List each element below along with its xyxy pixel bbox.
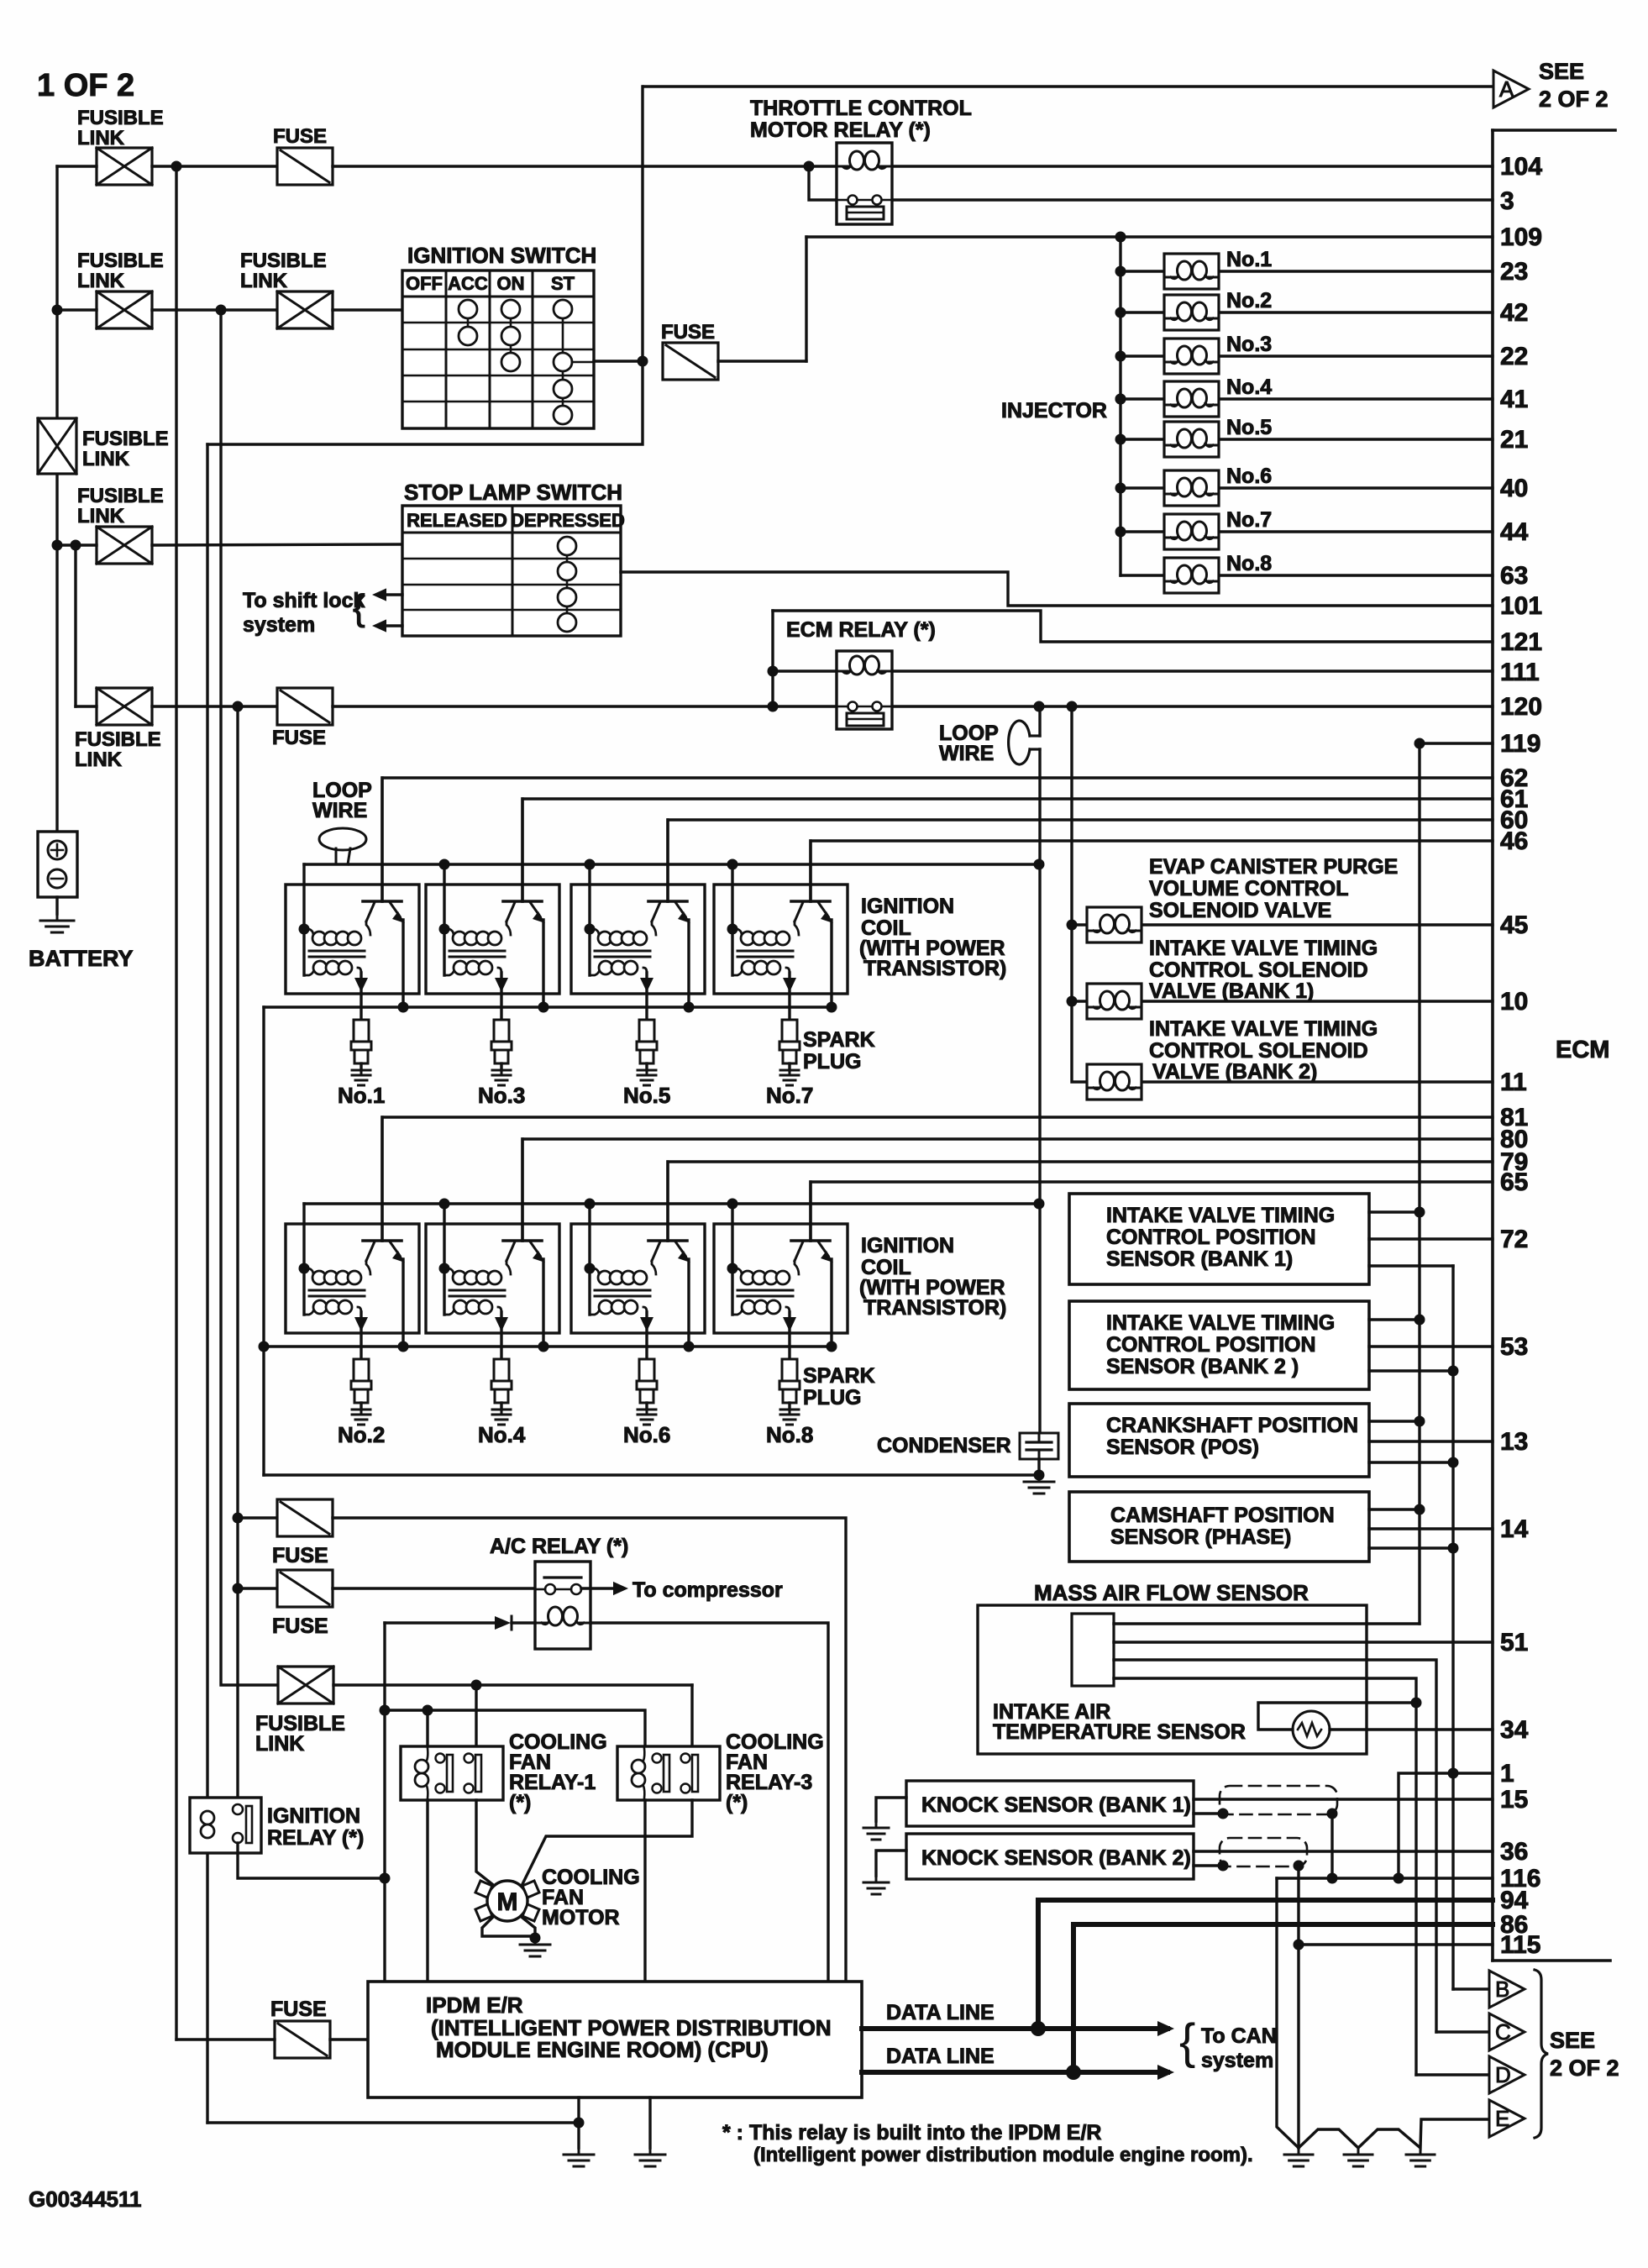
svg-text:IGNITION SWITCH: IGNITION SWITCH — [407, 243, 596, 268]
transistor emitter — [506, 902, 515, 921]
node dot row2 bus — [727, 1199, 738, 1210]
svg-text:FUSE: FUSE — [272, 1614, 328, 1638]
svg-text:FUSIBLE: FUSIBLE — [77, 249, 164, 272]
coil core — [595, 950, 650, 953]
wire bus210 to fuse6 — [176, 2038, 275, 2040]
svg-text:No.3: No.3 — [1226, 333, 1272, 356]
wire row2 coil bus — [304, 1202, 1039, 1205]
svg-text:SENSOR (BANK 1): SENSOR (BANK 1) — [1106, 1247, 1293, 1271]
wire coil primary to emitter — [795, 921, 799, 935]
svg-text:LINK: LINK — [75, 748, 123, 771]
node dot coil line x458 — [380, 1705, 391, 1716]
wire 119 line — [1420, 742, 1493, 744]
ground spark plug — [638, 1070, 656, 1085]
svg-text:ACC: ACC — [448, 273, 488, 294]
svg-text:MODULE ENGINE ROOM) (CPU): MODULE ENGINE ROOM) (CPU) — [436, 2037, 769, 2062]
transistor emitter — [652, 1242, 660, 1261]
wire condenser to return line — [1037, 1459, 1040, 1475]
svg-text:No.8: No.8 — [1226, 552, 1272, 575]
wire row1 link to fuse — [152, 165, 277, 167]
wire relay1 coil feed — [426, 1710, 428, 1746]
transistor collector with arrow — [675, 902, 685, 916]
node dot fuse junction x765 — [638, 356, 648, 367]
wire fuse4 to A/C relay contact — [333, 1587, 545, 1589]
svg-text:INTAKE VALVE TIMING: INTAKE VALVE TIMING — [1106, 1204, 1335, 1227]
node dot ecm relay coil tap — [768, 666, 779, 677]
spark plug — [494, 1020, 509, 1042]
svg-text:53: 53 — [1500, 1333, 1528, 1361]
ground spark plug — [780, 1410, 799, 1425]
coil secondary winding — [732, 1309, 743, 1315]
coil core — [449, 950, 505, 953]
arrow to compressor — [613, 1582, 628, 1595]
wire throttle relay coil-to-contact jumper — [809, 166, 837, 200]
wire battery bus vertical x68 — [55, 166, 58, 832]
svg-text:No.1: No.1 — [338, 1083, 385, 1108]
svg-text:22: 22 — [1500, 343, 1528, 370]
node dot 120 line x1276 — [1067, 701, 1078, 712]
svg-text:LINK: LINK — [255, 1732, 304, 1756]
svg-text:VALVE (BANK 2): VALVE (BANK 2) — [1152, 1060, 1317, 1084]
wire 115 line — [1299, 1943, 1493, 1945]
svg-text:RELEASED: RELEASED — [407, 510, 507, 531]
coil core — [737, 1289, 793, 1292]
svg-text:system: system — [1201, 2049, 1273, 2072]
transistor base feed — [809, 841, 811, 901]
node dot knock1 drain left — [1218, 1809, 1229, 1819]
wire IAT left to ground net — [1258, 1703, 1416, 1730]
svg-text:KNOCK SENSOR (BANK 1): KNOCK SENSOR (BANK 1) — [921, 1793, 1191, 1817]
svg-text:104: 104 — [1500, 153, 1542, 181]
node dot return x1730 crank — [1448, 1457, 1459, 1468]
condenser — [1020, 1433, 1058, 1459]
svg-text:CAMSHAFT POSITION: CAMSHAFT POSITION — [1110, 1504, 1335, 1527]
node dot fuse4 tap — [233, 1583, 244, 1594]
node dot ecm relay 120 tap — [768, 701, 779, 712]
svg-text:63: 63 — [1500, 562, 1528, 590]
ignition coil box at 850,1053 — [714, 885, 848, 994]
ECM box edge — [1493, 129, 1615, 132]
svg-text:INTAKE VALVE TIMING: INTAKE VALVE TIMING — [1149, 1017, 1378, 1041]
ignition relay — [190, 1798, 261, 1853]
svg-text:To compressor: To compressor — [632, 1578, 783, 1602]
svg-text:FUSIBLE: FUSIBLE — [75, 728, 161, 751]
wire coil left rail — [588, 1204, 590, 1315]
svg-text:FUSE: FUSE — [272, 1544, 328, 1567]
svg-text:No.6: No.6 — [623, 1422, 670, 1447]
wire coil left rail — [731, 1204, 733, 1315]
svg-text:system: system — [243, 613, 315, 637]
fusible link FL7 (cooling) — [278, 1667, 333, 1704]
wire spark plug tail — [788, 1063, 790, 1070]
wire solenoid2 stub — [1072, 1000, 1087, 1002]
wire bus x247 down to IPDM ground line — [206, 444, 208, 2123]
wire coil primary to emitter — [652, 1261, 656, 1274]
wire injector 5 to ECM — [1219, 438, 1493, 440]
svg-text:46: 46 — [1500, 827, 1528, 855]
node dot coil primary left — [299, 1263, 310, 1274]
svg-text:(*): (*) — [726, 1791, 748, 1814]
wire to shift lock arrow 1 — [377, 593, 402, 596]
svg-text:IGNITION: IGNITION — [861, 895, 954, 918]
transistor base feed — [381, 778, 383, 901]
coil primary winding — [304, 1268, 313, 1274]
wire coil secondary output — [645, 973, 648, 1020]
maf connector — [1072, 1614, 1114, 1686]
wire injector 6 feed — [1121, 486, 1164, 489]
fuse F1 (row1) — [277, 148, 333, 185]
wire coil primary to emitter — [366, 921, 370, 935]
wire sensor supply — [1369, 1210, 1420, 1213]
injector No.4 — [1164, 381, 1219, 417]
wire ECM drive line y951 to coil base x622 — [522, 799, 1493, 901]
ground spark plug — [352, 1070, 370, 1085]
svg-text:SEE: SEE — [1550, 2028, 1595, 2053]
svg-text:PLUG: PLUG — [803, 1386, 861, 1410]
svg-text:VOLUME CONTROL: VOLUME CONTROL — [1149, 877, 1349, 900]
wire knock1 signal to pin 15 — [1194, 1798, 1493, 1800]
svg-text:11: 11 — [1500, 1068, 1527, 1096]
fuse F5 (120 feed) — [277, 688, 333, 725]
wire maf w1 (supply) — [1114, 1622, 1420, 1625]
svg-text:ECM: ECM — [1556, 1037, 1609, 1063]
svg-text:40: 40 — [1500, 475, 1528, 502]
injector No.7 — [1164, 514, 1219, 549]
transistor base feed — [521, 1139, 523, 1241]
svg-text:CONDENSER: CONDENSER — [877, 1434, 1011, 1457]
svg-text:45: 45 — [1500, 911, 1528, 939]
wire maf w4 to sensor ground net — [1114, 1678, 1416, 2075]
transistor collector with arrow — [530, 1242, 540, 1256]
svg-text:KNOCK SENSOR (BANK 2): KNOCK SENSOR (BANK 2) — [921, 1846, 1191, 1870]
wire CAN riser 86 (thick) — [1071, 1924, 1076, 2072]
svg-text:THROTTLE CONTROL: THROTTLE CONTROL — [750, 97, 972, 120]
connector D — [1489, 2056, 1525, 2093]
svg-text:M: M — [497, 1888, 518, 1916]
spark output arrow — [354, 978, 368, 992]
node dot cooling x567 — [471, 1680, 482, 1691]
wire knock1 shield drain — [1194, 1812, 1223, 1814]
spark output arrow — [783, 1317, 796, 1331]
transistor base bar — [648, 1239, 687, 1242]
node dot coil primary left — [439, 924, 450, 935]
wire collector to return bus — [830, 920, 832, 1007]
svg-text:* : This relay is built into t: * : This relay is built into the IPDM E/… — [722, 2121, 1101, 2145]
svg-text:2 OF 2: 2 OF 2 — [1539, 87, 1609, 112]
cooling fan motor — [487, 1881, 527, 1921]
wire switch output to fuse junction — [594, 360, 643, 362]
svg-text:115: 115 — [1500, 1931, 1540, 1959]
injector No.3 — [1164, 339, 1219, 374]
ignition coil box at 680,1457 — [571, 1224, 705, 1333]
wire to shift lock arrow 2 — [377, 624, 402, 627]
wire riser x960 to 109 line — [805, 237, 807, 361]
node dot 115 tap — [1294, 1940, 1304, 1950]
ground IPDM 1 — [564, 2148, 594, 2166]
svg-text:(Intelligent power distributio: (Intelligent power distribution module e… — [753, 2144, 1253, 2166]
node dot sensor supply — [1414, 1504, 1425, 1515]
coil primary winding — [732, 1268, 742, 1274]
svg-text:SPARK: SPARK — [803, 1364, 875, 1388]
svg-text:B: B — [1495, 1977, 1509, 2002]
svg-text:No.2: No.2 — [338, 1422, 385, 1447]
wire sensor supply — [1369, 1508, 1420, 1510]
svg-text:CRANKSHAFT POSITION: CRANKSHAFT POSITION — [1106, 1414, 1358, 1437]
injector No.6 — [1164, 470, 1219, 506]
solenoid valve intake timing bank2 — [1087, 1064, 1142, 1100]
connector A — [1493, 71, 1529, 108]
node dot throttle relay feed — [804, 161, 815, 172]
sensor box intake valve timing position bank2 — [1069, 1301, 1369, 1389]
ground spark plug — [492, 1410, 511, 1425]
wire sensor signal to ECM — [1369, 1345, 1493, 1347]
wire sensor supply — [1369, 1420, 1420, 1422]
ground cooling fan motor — [520, 1938, 550, 1956]
arrow data line 1 — [1157, 2021, 1174, 2036]
node dot collector on return bus — [684, 1341, 695, 1352]
node dot injector bus row 4 — [1115, 394, 1126, 405]
wire B line — [1453, 1987, 1489, 1990]
wire collector to return bus — [542, 1259, 544, 1347]
wire spark plug tail — [788, 1403, 790, 1410]
svg-text:65: 65 — [1500, 1168, 1528, 1196]
node dot 119 tap x1690 — [1414, 738, 1425, 749]
node dot injector bus row 5 — [1115, 434, 1126, 445]
node dot data2 — [1066, 2065, 1081, 2080]
wire sensor return vertical x1730 — [1451, 1266, 1454, 1989]
wire bus x263 down to cooling fan feed — [221, 310, 278, 1685]
svg-text:FUSIBLE: FUSIBLE — [77, 107, 164, 129]
wire top A line — [643, 85, 1493, 87]
svg-text:INTAKE VALVE TIMING: INTAKE VALVE TIMING — [1149, 937, 1378, 960]
wire injector 1 feed — [1121, 270, 1164, 272]
wire pin86 line (thick) — [1073, 1922, 1493, 1927]
sensor box crankshaft position — [1069, 1404, 1369, 1477]
wire 109 line to ECM pin 109 — [806, 235, 1493, 238]
wire sensor return — [1369, 1546, 1453, 1549]
node dot row2 tap — [52, 305, 63, 316]
fusible link FL5 (row4) — [97, 527, 152, 564]
knock sensor bank2 box — [906, 1834, 1194, 1879]
stop lamp contacts — [558, 537, 576, 555]
ground spark plug — [638, 1410, 656, 1425]
node dot motor ground junction — [530, 1933, 541, 1944]
stop lamp switch table — [402, 506, 621, 636]
svg-text:EVAP CANISTER PURGE: EVAP CANISTER PURGE — [1149, 855, 1398, 879]
transistor collector with arrow — [390, 1242, 400, 1256]
node dot collector on return bus — [827, 1002, 837, 1013]
coil secondary winding — [590, 969, 600, 975]
bracket SEE 2 OF 2 bottom — [1535, 1970, 1548, 2138]
wire spark plug tail — [645, 1063, 648, 1070]
wire row2 return bus — [264, 1345, 831, 1347]
svg-text:72: 72 — [1500, 1226, 1528, 1253]
wire solenoid1 to pin 45 — [1142, 923, 1493, 926]
wire ECM drive line y976 to coil base x795 — [668, 820, 1493, 901]
wire ECM drive line y1330 to coil base x455 — [382, 1117, 1493, 1241]
fusible link FL2 (row2) — [97, 291, 152, 328]
ground IPDM 2 — [635, 2148, 665, 2166]
wire injector 7 to ECM — [1219, 530, 1493, 533]
node dot coil line x509 — [422, 1705, 433, 1716]
svg-text:15: 15 — [1500, 1786, 1528, 1814]
svg-text:ON: ON — [497, 273, 525, 294]
svg-text:(*): (*) — [509, 1791, 531, 1814]
node dot ignition relay output x457 — [380, 1873, 391, 1884]
svg-text:STOP LAMP SWITCH: STOP LAMP SWITCH — [404, 480, 622, 505]
svg-text:To CAN: To CAN — [1201, 2024, 1277, 2048]
coil secondary winding — [590, 1309, 600, 1315]
mass air flow sensor box — [978, 1605, 1367, 1754]
wire injector 5 feed — [1121, 438, 1164, 440]
transistor collector with arrow — [818, 902, 828, 916]
A/C relay — [535, 1562, 590, 1649]
spark plug — [782, 1359, 797, 1381]
svg-text:DATA LINE: DATA LINE — [886, 2045, 995, 2068]
node dot sensor supply — [1414, 1207, 1425, 1218]
sensor box camshaft position — [1069, 1492, 1369, 1562]
wire coil secondary output — [500, 973, 502, 1020]
svg-text:101: 101 — [1500, 592, 1542, 620]
node dot 120 line x1237 — [1034, 701, 1045, 712]
node dot return x1730 b2 — [1448, 1366, 1459, 1377]
node dot coil primary left — [585, 1263, 596, 1274]
wire spark plug tail — [500, 1403, 502, 1410]
spark output arrow — [354, 1317, 368, 1331]
svg-text:No.1: No.1 — [1226, 248, 1272, 271]
fusible link FL4 (vertical) — [38, 418, 76, 474]
wire coil secondary output — [645, 1312, 648, 1359]
ignition coil box at 850,1457 — [714, 1224, 848, 1333]
node dot collector on return bus — [684, 1002, 695, 1013]
node dot data1 — [1031, 2021, 1046, 2036]
transistor base feed — [809, 1182, 811, 1241]
wire relay1 output to motor — [476, 1800, 492, 1884]
wire motor left return — [482, 1918, 535, 1936]
node dot x90 row4 — [71, 540, 81, 551]
wire row4 link5 to stop lamp switch — [152, 544, 402, 545]
svg-text:44: 44 — [1500, 518, 1529, 546]
node dot coil primary left — [585, 924, 596, 935]
wire pin1 line — [1399, 1773, 1493, 1878]
wire ecm relay riser x920 — [771, 611, 774, 706]
node dot collector on return bus — [538, 1341, 549, 1352]
svg-text:LINK: LINK — [77, 505, 125, 528]
wire spark plug tail — [500, 1063, 502, 1070]
shield knock1 (dashed) — [1220, 1786, 1337, 1814]
spark plug — [354, 1359, 369, 1381]
svg-text:111: 111 — [1500, 659, 1540, 686]
wire row5 link6 to fuse5 — [152, 705, 277, 707]
svg-text:FUSIBLE: FUSIBLE — [82, 428, 169, 450]
node dot IPDM ground junction — [574, 2118, 585, 2129]
transistor collector with arrow — [675, 1242, 685, 1256]
wire collector to return bus — [687, 920, 690, 1007]
transistor collector with arrow — [818, 1242, 828, 1256]
transistor collector with arrow — [530, 902, 540, 916]
node dot injector bus row 1 — [1115, 266, 1126, 277]
svg-text:DATA LINE: DATA LINE — [886, 2001, 995, 2024]
coil core — [309, 950, 365, 953]
loop wire symbol row1 — [319, 828, 366, 850]
cooling fan relay-3 — [617, 1746, 720, 1800]
wire 121 line upper — [773, 611, 1493, 642]
wire coil secondary output — [360, 973, 362, 1020]
node dot row1 bus — [585, 859, 596, 870]
wire vertical x765 from A line to y529 — [207, 87, 643, 444]
svg-text:FUSIBLE: FUSIBLE — [240, 249, 327, 272]
wire stop lamp output to pin 101 — [621, 572, 1493, 606]
wire solenoid2 to pin 10 — [1142, 1000, 1493, 1002]
transistor emitter — [366, 902, 375, 921]
svg-text:IPDM E/R: IPDM E/R — [426, 1992, 523, 2018]
wire cooling coil line y2036 — [385, 1710, 645, 1746]
svg-text:2 OF 2: 2 OF 2 — [1550, 2055, 1619, 2081]
coil core — [449, 1289, 505, 1292]
intake air temperature sensor resistor — [1293, 1711, 1330, 1748]
throttle control motor relay — [837, 143, 892, 224]
svg-text:INTAKE VALVE TIMING: INTAKE VALVE TIMING — [1106, 1311, 1335, 1335]
knock sensor bank1 box — [906, 1781, 1194, 1826]
wire collector to return bus — [830, 1259, 832, 1347]
fuse F6 (IPDM) — [275, 2021, 330, 2058]
wire solenoid feed vertical x1276 — [1072, 706, 1087, 1082]
wire injector 8 to ECM — [1219, 574, 1493, 576]
spark output arrow — [783, 978, 796, 992]
svg-text:1 OF 2: 1 OF 2 — [37, 68, 134, 103]
transistor base bar — [363, 1239, 402, 1242]
wire knock1 ground hook — [876, 1798, 906, 1821]
svg-text:FUSE: FUSE — [273, 125, 327, 148]
wire coil primary to emitter — [506, 921, 511, 935]
wire A/C coil return riser x458 — [383, 1623, 386, 1982]
IPDM E/R box — [368, 1982, 862, 2097]
svg-text:IGNITION: IGNITION — [267, 1804, 360, 1828]
spark plug — [354, 1020, 369, 1042]
node dot knock2 drain left — [1218, 1861, 1229, 1872]
wire row5 x90 to link6 — [76, 705, 97, 707]
wire IPDM ground 1 — [577, 2097, 580, 2148]
transistor base feed — [521, 799, 523, 901]
ground battery — [40, 914, 74, 932]
wire fuse3 feed — [238, 1516, 277, 1519]
wire spark plug tail — [645, 1403, 648, 1410]
connector B — [1489, 1971, 1525, 2008]
node dot solenoid2 tap — [1067, 996, 1078, 1007]
wire relay3 coil to IPDM — [643, 1800, 646, 1982]
svg-text:ECM RELAY (*): ECM RELAY (*) — [786, 618, 936, 642]
wire 116 line — [1277, 1877, 1493, 1879]
svg-text:MOTOR: MOTOR — [542, 1906, 620, 1929]
coil primary winding — [444, 1268, 454, 1274]
wire knock1 drain to 116 — [1330, 1814, 1333, 1878]
svg-text:No.8: No.8 — [766, 1422, 813, 1447]
solenoid valve EVAP purge — [1087, 907, 1142, 942]
wire CAN riser 94 (thick) — [1036, 1900, 1041, 2029]
wire row1 coil bus — [304, 863, 1039, 865]
wire collector to return bus — [542, 920, 544, 1007]
wire collector to return bus — [402, 920, 404, 1007]
transistor base bar — [791, 1239, 830, 1242]
node dot injector bus row 3 — [1115, 351, 1126, 362]
node dot coil primary left — [299, 924, 310, 935]
wire coil primary to emitter — [506, 1261, 511, 1274]
wire sensor return — [1369, 1369, 1453, 1372]
svg-text:BATTERY: BATTERY — [29, 946, 134, 971]
wire relay1 coil to IPDM — [426, 1800, 428, 1982]
coil secondary winding — [732, 969, 743, 975]
solenoid valve intake timing bank1 — [1087, 984, 1142, 1019]
